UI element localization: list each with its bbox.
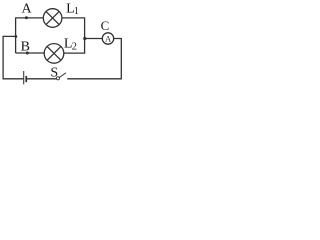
node junction left [15, 35, 18, 38]
svg-text:L2: L2 [64, 37, 77, 53]
lamp L1 [43, 9, 62, 28]
switch S pivot [56, 77, 59, 80]
node B dot [26, 52, 29, 55]
wire left vertical joining branch A and branch B [15, 17, 17, 53]
wire ammeter to right edge, down and along bottom to switch [67, 39, 121, 79]
battery short thick plate [25, 76, 27, 82]
svg-text:C: C [101, 18, 110, 33]
battery long plate [23, 71, 25, 84]
wire left feed from battery loop [3, 36, 23, 78]
wire node C to ammeter [85, 38, 103, 40]
svg-text:S: S [50, 66, 58, 81]
ammeter [102, 33, 113, 44]
node C junction dot [83, 37, 86, 40]
wire top branch right [62, 17, 85, 19]
svg-text:L1: L1 [66, 1, 79, 17]
wire battery to switch pivot [27, 78, 57, 80]
wire branch B right rising to node C [64, 39, 85, 54]
wire top branch left [16, 17, 44, 19]
node A dot [25, 16, 28, 19]
wire branch B left [16, 52, 45, 54]
wire from top branch down to node C [84, 17, 86, 38]
svg-text:A: A [105, 33, 112, 43]
switch S lever [59, 73, 66, 78]
svg-text:B: B [21, 39, 30, 54]
lamp L2 [44, 44, 64, 64]
svg-text:A: A [21, 2, 32, 17]
